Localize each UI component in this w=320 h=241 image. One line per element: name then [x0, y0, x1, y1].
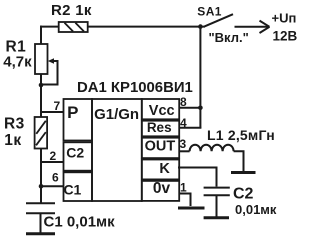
- wire: pin 7 lead: [41, 111, 64, 113]
- wire: top rail right segment: [88, 26, 205, 28]
- wire: R1 bottom to R3 top: [40, 74, 42, 117]
- switch SA1 (open blade): [205, 14, 234, 26]
- svg-text:G1/Gn: G1/Gn: [94, 106, 139, 123]
- wire: pin 8 lead: [179, 107, 200, 109]
- IC DA1 cell Vcc: [142, 99, 179, 119]
- svg-text:C1 0,01мк: C1 0,01мк: [44, 214, 116, 231]
- svg-text:1: 1: [180, 180, 187, 194]
- wire: Vcc branch vertical from rail to pin 4: [199, 27, 201, 128]
- node: R1 bottom / wiper junction: [39, 83, 44, 88]
- svg-text:0v: 0v: [153, 180, 171, 197]
- node: junction of rail and Vcc branch: [198, 24, 203, 29]
- wire: K (control) lead to C2: [178, 168, 217, 187]
- wire: arrow to +U supply: [235, 21, 270, 33]
- svg-text:12В: 12В: [273, 29, 298, 44]
- svg-text:1к: 1к: [4, 132, 21, 149]
- svg-text:R2 1к: R2 1к: [51, 2, 92, 19]
- svg-text:R3: R3: [4, 116, 25, 133]
- svg-text:"Вкл.": "Вкл.": [209, 30, 249, 45]
- ground: below C1: [26, 232, 55, 235]
- svg-text:K: K: [159, 161, 170, 177]
- wire: C1 bottom lead: [40, 214, 42, 233]
- IC DA1 cell OUT: [142, 138, 179, 158]
- IC DA1 cell C2: [64, 142, 93, 170]
- svg-text:2: 2: [50, 149, 57, 163]
- svg-text:6: 6: [52, 171, 59, 185]
- resistor R2: [59, 22, 88, 32]
- potentiometer R1 body: [35, 44, 48, 74]
- ground: below L1: [231, 171, 256, 174]
- wire: C2 bottom lead: [216, 196, 218, 217]
- wire: pin 3 lead: [179, 150, 189, 152]
- svg-text:OUT: OUT: [145, 139, 176, 155]
- IC DA1 cell 0v: [142, 181, 179, 201]
- svg-text:C2: C2: [66, 145, 84, 161]
- inductor L1: [190, 145, 234, 152]
- IC DA1 cell Res: [142, 121, 179, 137]
- svg-text:SA1: SA1: [197, 5, 222, 19]
- svg-text:C2: C2: [233, 185, 254, 202]
- svg-text:Vcc: Vcc: [149, 103, 175, 119]
- IC DA1 cell K: [142, 160, 179, 180]
- wire: pin 6 lead: [41, 185, 64, 187]
- svg-text:7: 7: [54, 99, 61, 113]
- wire: pin 4 lead: [179, 127, 201, 129]
- wire: L1 to ground corner: [234, 151, 244, 171]
- IC DA1 cell C1: [64, 172, 93, 201]
- wire: top rail left segment: [40, 26, 59, 28]
- svg-text:C1: C1: [63, 182, 81, 198]
- capacitor C2: [204, 188, 230, 196]
- svg-text:+Uп: +Uп: [272, 10, 297, 25]
- wire: R3 bottom down to C1: [40, 149, 42, 203]
- IC DA1 timer: middle section G1/Gn: [92, 99, 142, 201]
- svg-text:4,7к: 4,7к: [3, 53, 32, 70]
- capacitor C1: [26, 203, 55, 213]
- svg-text:DA1 КР1006ВИ1: DA1 КР1006ВИ1: [77, 80, 193, 96]
- wire: pin 2 lead: [41, 161, 64, 163]
- svg-text:Res: Res: [147, 120, 172, 135]
- svg-text:8: 8: [180, 95, 187, 109]
- svg-text:0,01мк: 0,01мк: [235, 202, 277, 217]
- node: junction pin 8: [198, 106, 203, 111]
- wire: pin 1 lead to ground: [179, 194, 190, 207]
- node: junction to pin 6 and C1: [39, 184, 44, 189]
- svg-text:3: 3: [180, 137, 187, 151]
- resistor R3: [35, 117, 48, 149]
- svg-text:P: P: [67, 103, 78, 122]
- potentiometer R1 wiper arrow and wiper wire: [41, 58, 58, 84]
- ground: below pin 1: [178, 207, 205, 210]
- svg-text:4: 4: [180, 116, 187, 130]
- IC DA1 cell P: [64, 99, 93, 141]
- ground: below C2: [204, 216, 229, 219]
- svg-text:L1 2,5мГн: L1 2,5мГн: [207, 127, 275, 143]
- wire: rail corner down to R1: [40, 26, 42, 44]
